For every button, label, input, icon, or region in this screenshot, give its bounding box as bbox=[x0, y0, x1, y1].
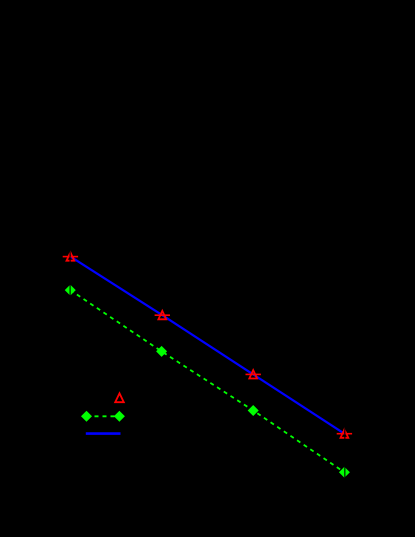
legend: green dashed line key bbox=[87, 415, 120, 417]
red triangle marker 2 bbox=[158, 311, 166, 319]
red error bar 2 bbox=[155, 314, 170, 316]
red triangle marker 3 bbox=[249, 370, 257, 378]
green diamond marker 3 bbox=[248, 406, 258, 416]
legend: blue line key bbox=[86, 432, 121, 435]
red triangle marker 4 bbox=[341, 429, 349, 437]
green dashed data line bbox=[70, 290, 344, 472]
green diamond marker 1 bbox=[65, 285, 75, 295]
red error bar 4 bbox=[337, 433, 352, 435]
red error bar 1 bbox=[63, 256, 78, 258]
red triangle marker 1 bbox=[67, 252, 75, 260]
legend: green diamond key left bbox=[82, 412, 92, 422]
legend: red triangle key bbox=[115, 393, 124, 402]
green diamond marker 4 bbox=[340, 468, 350, 478]
legend: green diamond key right bbox=[115, 412, 125, 422]
left axis spine (black, crosses first markers) bbox=[69, 24, 71, 490]
green diamond marker 2 bbox=[157, 347, 167, 357]
right axis spine (black, crosses last markers) bbox=[344, 24, 346, 490]
blue data line bbox=[70, 257, 344, 434]
red error bar 3 bbox=[246, 373, 261, 375]
